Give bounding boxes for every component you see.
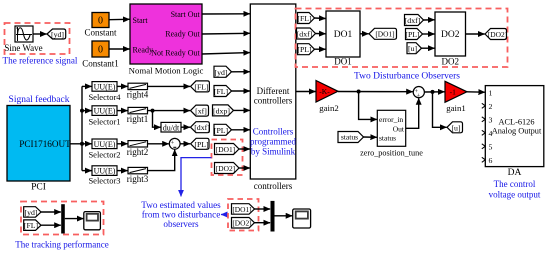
svg-text:PCI1716OUT: PCI1716OUT: [19, 139, 71, 149]
subsystem zero_position_tune: [360, 110, 423, 157]
junction dot u branch: [431, 90, 435, 94]
sum block (+-): [169, 138, 180, 149]
wire du/dt -> goto [dxf]: [181, 126, 190, 128]
svg-text:[yd]: [yd]: [51, 30, 64, 39]
wire gain2 branch -> error_in: [359, 92, 377, 120]
svg-text:UU(E): UU(E): [94, 107, 116, 116]
svg-text:0: 0: [98, 45, 103, 56]
selector Selector3: [88, 166, 120, 186]
svg-text:[DO1]: [DO1]: [375, 30, 394, 39]
svg-text:right2: right2: [127, 147, 149, 157]
svg-text:[xf]: [xf]: [195, 107, 207, 116]
annotation text: Two estimated values from two disturbance observers: [141, 200, 221, 229]
wire [DO2] -> controllers: [239, 167, 250, 169]
svg-text:[FL]: [FL]: [24, 221, 39, 230]
svg-text:Sine Wave: Sine Wave: [4, 43, 42, 53]
wire Sine Wave -> goto [yd]: [33, 33, 47, 35]
goto tag [PL]: [191, 138, 209, 149]
svg-text:6: 6: [489, 156, 493, 165]
svg-text:[PL]: [PL]: [194, 140, 209, 149]
wire right4 -> goto [FL]: [148, 85, 191, 87]
svg-text:The control: The control: [494, 179, 536, 189]
goto tag [DO2]: [485, 29, 507, 40]
wire mux2 -> scope2: [275, 215, 293, 217]
svg-text:-K-: -K-: [319, 87, 330, 96]
selector Selector4: [88, 82, 121, 103]
from tag [yd] -> controllers p4: [214, 66, 232, 77]
svg-text:Two Disturbance Observers: Two Disturbance Observers: [354, 72, 460, 82]
wire right1 branch -> du/dt: [153, 111, 161, 128]
wire branch -> Selector3: [82, 170, 92, 172]
wire Constant -> Start: [109, 18, 130, 20]
wire [dxf] -> DO1: [316, 33, 326, 35]
from tag [dxp] -> controllers p6: [213, 105, 234, 116]
wire branch -> Selector4: [82, 85, 92, 87]
junction dot right1 branch: [151, 109, 155, 113]
svg-text:status: status: [379, 133, 396, 142]
wire [FL] -> DO1: [315, 17, 326, 20]
from tag [u] -> DO2 p3: [407, 43, 422, 54]
annotation arrow from [DO1][DO2] box down to text: [181, 158, 212, 197]
wire Out -> sum2 bottom: [406, 98, 419, 128]
svg-text:right3: right3: [127, 174, 149, 184]
wire DO1 -> goto [DO1]: [360, 33, 369, 35]
svg-text:[DO1]: [DO1]: [216, 145, 235, 154]
svg-text:status: status: [341, 133, 358, 142]
constant C1: [82, 41, 119, 69]
wire sum -> goto [PL]: [180, 143, 190, 145]
svg-text:[yd]: [yd]: [215, 68, 228, 77]
svg-text:zero_position_tune: zero_position_tune: [360, 149, 423, 158]
svg-text:+: +: [171, 140, 175, 147]
svg-text:Analog Output: Analog Output: [492, 127, 542, 136]
svg-text:right1: right1: [127, 114, 149, 124]
junction dot gain2 branch: [357, 90, 361, 94]
svg-text:0: 0: [98, 16, 103, 27]
observer DO2: [435, 12, 466, 67]
svg-text:Controllers: Controllers: [253, 127, 294, 137]
wire gain2 -> sum2: [338, 91, 413, 93]
svg-text:error_in: error_in: [379, 115, 403, 124]
annotation box: Two Disturbance Observers (red dashed): [296, 9, 508, 68]
svg-text:[dxp]: [dxp]: [213, 106, 230, 115]
wire mux1 -> scope1: [65, 218, 84, 220]
annotation box: tracking performance (red dashed): [21, 202, 104, 235]
gain gain2: [316, 81, 339, 113]
annotation box: reference signal (red dashed): [5, 23, 70, 54]
svg-text:[DO2]: [DO2]: [488, 30, 507, 39]
svg-text:Selector2: Selector2: [88, 149, 120, 159]
wire PCI -> branch trunk: [70, 86, 82, 170]
svg-text:controllers: controllers: [254, 96, 293, 106]
wire [PL] -> DO2: [423, 33, 435, 35]
wire [yd] -> mux1: [41, 211, 61, 213]
goto tag [DO1]: [369, 28, 397, 39]
wire [FL] -> controllers: [232, 90, 250, 92]
svg-text:Different: Different: [257, 86, 290, 96]
slider gain right2: [127, 141, 149, 158]
from tag [DO1] -> mux2: [232, 204, 255, 215]
wire branch -> Selector1: [82, 110, 92, 112]
svg-text:DO2: DO2: [442, 57, 460, 67]
wire sum2 -> gain1: [424, 91, 444, 93]
block DA (ACL-6126 Analog Output): [482, 86, 544, 178]
goto tag [FL]: [191, 81, 210, 92]
wire [yd] -> controllers: [232, 71, 250, 73]
scope scope2: [293, 209, 311, 228]
svg-text:2: 2: [489, 102, 493, 111]
svg-text:Selector4: Selector4: [88, 92, 121, 102]
svg-text:[FL]: [FL]: [194, 82, 209, 91]
svg-text:DA: DA: [508, 168, 522, 178]
subsystem Different controllers: [250, 4, 296, 191]
svg-text:Constant1: Constant1: [82, 59, 119, 69]
svg-text:+: +: [417, 93, 421, 100]
svg-text:[DO2]: [DO2]: [216, 164, 235, 173]
wire status -> zero_position_tune: [364, 136, 377, 138]
svg-text:Selector3: Selector3: [88, 175, 120, 185]
goto tag [yd]: [47, 29, 66, 39]
block Sine Wave: [4, 26, 42, 53]
svg-text:programmed: programmed: [250, 137, 296, 147]
junction dots on PCI trunk: [80, 109, 84, 113]
svg-text:[FL]: [FL]: [297, 14, 312, 23]
svg-text:right4: right4: [127, 90, 149, 100]
svg-text:[PL]: [PL]: [297, 45, 312, 54]
constant C0: [84, 13, 117, 38]
svg-text:[FL]: [FL]: [214, 87, 229, 96]
selector Selector1: [88, 106, 120, 127]
wire [dxp] -> controllers: [234, 109, 250, 111]
svg-text:du/dt: du/dt: [163, 123, 180, 132]
svg-text:Constant: Constant: [84, 28, 117, 38]
wire right1 -> goto [xf]: [148, 110, 191, 112]
svg-text:Signal feedback: Signal feedback: [9, 94, 70, 105]
from tag [FL] -> controllers p5: [214, 86, 232, 97]
from tag [PL] -> DO2 p2: [405, 29, 422, 40]
from tag [yd] -> mux1: [24, 207, 41, 218]
svg-text:The tracking performance: The tracking performance: [15, 240, 108, 250]
svg-text:DO1: DO1: [334, 30, 353, 40]
svg-text:Not Ready Out: Not Ready Out: [151, 48, 200, 57]
slider gain right3: [127, 167, 149, 183]
wire Ready Out -> controllers p2: [202, 32, 250, 35]
svg-text:Out: Out: [393, 124, 405, 133]
svg-text:UU(E): UU(E): [94, 82, 116, 91]
from tag [FL] -> mux1: [24, 220, 41, 231]
svg-text:observers: observers: [163, 219, 199, 229]
wire [FL] -> mux1: [41, 224, 61, 226]
svg-text:[PL]: [PL]: [214, 126, 229, 135]
wire [dxf] -> DO2: [424, 19, 435, 21]
wire [DO1] -> controllers: [239, 148, 250, 150]
svg-text:Start: Start: [133, 16, 149, 25]
svg-text:5: 5: [489, 142, 493, 151]
wire controllers -> gain2: [296, 91, 316, 93]
wire Not Ready Out -> controllers p3: [202, 53, 250, 54]
wire [DO1] -> mux2: [255, 208, 271, 210]
svg-text:[PL]: [PL]: [405, 30, 420, 39]
svg-text:voltage output: voltage output: [489, 189, 541, 199]
wire right2 -> sum: [148, 143, 169, 145]
wire Selector1 -> right1: [117, 110, 128, 112]
wire [u] -> DO2: [422, 47, 435, 49]
annotation box: two estimated values scope (red dashed): [228, 199, 259, 231]
svg-text:[dxf]: [dxf]: [405, 16, 421, 25]
wire Selector4 -> right4: [117, 85, 128, 87]
svg-text:Nomal Motion Logic: Nomal Motion Logic: [129, 66, 204, 76]
selector Selector2: [88, 139, 120, 159]
slider gain right4: [127, 83, 149, 99]
subsystem Nomal Motion Logic: [129, 4, 204, 76]
from tag [PL] -> DO1 p3: [297, 44, 314, 55]
svg-text:DO2: DO2: [441, 30, 460, 40]
svg-text:UU(E): UU(E): [94, 167, 116, 176]
from tag [FL] -> DO1 p1: [297, 13, 314, 24]
from tag [status]: [338, 132, 364, 143]
gain gain1: [445, 81, 467, 113]
mux mux2: [271, 201, 275, 232]
svg-text:1: 1: [489, 88, 493, 97]
svg-text:controllers: controllers: [254, 181, 293, 191]
svg-text:[yd]: [yd]: [25, 208, 38, 217]
wire Constant1 -> Ready: [109, 48, 130, 50]
svg-text:gain1: gain1: [446, 103, 466, 113]
goto tag [u]: [447, 122, 463, 133]
slider gain right1: [127, 107, 149, 123]
svg-text:ACL-6126: ACL-6126: [499, 117, 535, 126]
goto tag [dxf]: [191, 122, 211, 133]
svg-text:-1: -1: [450, 88, 456, 97]
svg-text:3: 3: [489, 115, 493, 124]
wire gain1 -> DA p1: [467, 91, 485, 93]
from tag [dxf] -> DO1 p2: [297, 28, 316, 39]
from tag [DO2] -> controllers p9: [215, 163, 240, 174]
mux mux1: [61, 204, 65, 233]
from tag [PL] -> controllers p7: [214, 124, 232, 135]
wire branch -> Selector2: [82, 143, 92, 145]
sum block (++): [413, 87, 424, 100]
wire [PL] -> DO1: [315, 48, 326, 50]
wire Selector3 -> right3: [117, 170, 128, 172]
wire [DO2] -> mux2: [255, 222, 271, 224]
goto tag [xf]: [191, 105, 209, 116]
annotation arrow from bottom box left to text: [221, 214, 228, 216]
wire Start Out -> controllers p1: [202, 13, 250, 15]
wire right3 -> sum bottom: [148, 150, 175, 171]
from tag [DO2] -> mux2: [232, 218, 255, 229]
wire [PL] -> controllers: [232, 129, 250, 131]
svg-text:UU(E): UU(E): [94, 140, 116, 149]
svg-text:Two estimated values: Two estimated values: [141, 200, 221, 210]
svg-text:Selector1: Selector1: [88, 117, 120, 127]
svg-text:Ready: Ready: [133, 45, 153, 54]
svg-text:Start Out: Start Out: [171, 10, 201, 19]
scope scope1: [84, 212, 101, 230]
svg-text:[DO2]: [DO2]: [232, 218, 251, 227]
annotation box around [DO1][DO2] from tags (red dashed): [212, 140, 243, 176]
from tag [dxf] -> DO2 p1: [405, 15, 424, 26]
svg-text:from two disturbance: from two disturbance: [142, 210, 221, 220]
svg-text:gain2: gain2: [319, 103, 339, 113]
block PCI1716OUT: [7, 106, 71, 193]
wire Selector2 -> right2: [117, 143, 128, 145]
svg-text:The reference signal: The reference signal: [3, 56, 78, 66]
svg-text:[dxf]: [dxf]: [194, 123, 210, 132]
wire DO2 -> goto [DO2]: [466, 33, 485, 35]
svg-text:[u]: [u]: [408, 44, 417, 53]
observer DO1: [326, 11, 360, 67]
svg-text:[DO1]: [DO1]: [232, 205, 251, 214]
svg-text:[dxf]: [dxf]: [297, 30, 313, 39]
wire branch -> goto [u]: [433, 92, 447, 127]
svg-text:by Simulink: by Simulink: [251, 147, 296, 157]
svg-text:PCI: PCI: [31, 183, 46, 193]
svg-text:[u]: [u]: [451, 123, 460, 132]
derivative du/dt: [161, 122, 181, 132]
from tag [DO1] -> controllers p8: [215, 144, 240, 155]
svg-text:DO1: DO1: [334, 57, 352, 67]
svg-text:Ready Out: Ready Out: [165, 30, 200, 39]
